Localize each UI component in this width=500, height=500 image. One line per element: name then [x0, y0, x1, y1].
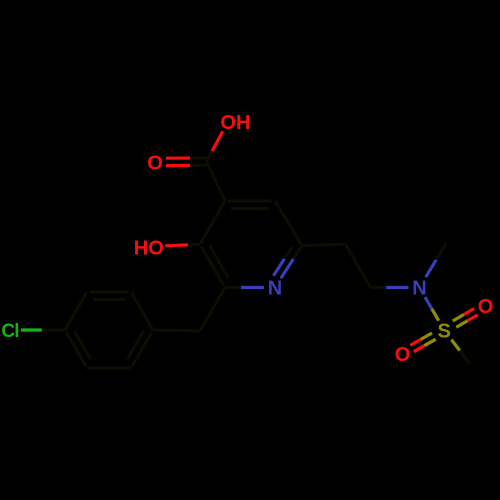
- double bond C2=C3 (pyridine): [201, 246, 224, 285]
- double bond C=O (carbonyl): [166, 164, 190, 167]
- double bond S=O (lower left): [421, 333, 432, 339]
- bond N2-CH3 (N-methyl): [426, 260, 437, 277]
- double bond C6'=C1' (phenyl): [132, 332, 152, 366]
- bond C2-CH2 (benzylic): [200, 288, 225, 331]
- svg-text:Cl: Cl: [1, 321, 18, 342]
- bond C3'-C4' (phenyl): [65, 292, 87, 330]
- bond N2-S (sulfonamide): [425, 297, 432, 309]
- svg-text:N: N: [268, 278, 282, 300]
- svg-text:O: O: [147, 153, 163, 175]
- svg-text:O: O: [395, 344, 411, 366]
- double bond C4=C5 (pyridine): [228, 199, 273, 202]
- bond S-CH3 (S-methyl): [451, 340, 459, 351]
- bond HO-C3 (hydroxyl): [165, 245, 188, 246]
- bond carboxyl C to ring C4: [207, 162, 226, 201]
- bond O-H...C (carboxyl C-OH): [212, 131, 223, 151]
- bond C3-C4 (pyridine): [200, 201, 225, 244]
- bond Cl-C4' (chloro): [21, 328, 42, 331]
- svg-text:O: O: [478, 296, 494, 318]
- double bond N1=C6 (pyridine): [281, 259, 294, 278]
- bond C1'-C2' (phenyl): [131, 292, 153, 330]
- bond C5'-C6' (phenyl): [87, 367, 131, 370]
- svg-text:S: S: [438, 320, 451, 342]
- svg-text:HO: HO: [134, 238, 164, 260]
- double bond C4'=C5' (phenyl): [66, 332, 86, 366]
- bond CH2-C1' (to phenyl): [153, 328, 200, 332]
- bond N2-C8 (sulfonamide N): [386, 286, 408, 289]
- bond C7-C8 (chain): [346, 244, 371, 287]
- bond C6-C7 (chain): [302, 244, 346, 245]
- svg-text:OH: OH: [220, 112, 250, 134]
- svg-text:N: N: [412, 278, 426, 300]
- bond C5-C6 (pyridine): [275, 201, 302, 246]
- bond N1-C2 (pyridine): [241, 286, 264, 289]
- double bond C2'=C3' (phenyl): [89, 290, 129, 293]
- double bond S=O (upper right): [456, 321, 467, 328]
